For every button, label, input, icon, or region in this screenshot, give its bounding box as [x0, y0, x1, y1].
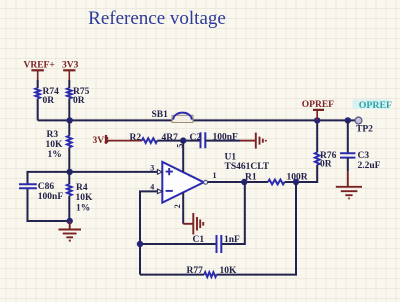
resistor R2 — [142, 138, 157, 143]
wire C86 left branch — [28, 172, 70, 221]
svg-text:0R: 0R — [320, 160, 332, 170]
svg-text:U1: U1 — [225, 153, 237, 163]
wire R3 column — [68, 120, 70, 171]
resistor R77 — [204, 272, 216, 277]
svg-text:1nF: 1nF — [224, 235, 240, 245]
capacitor C2 — [201, 132, 206, 148]
svg-text:TP2: TP2 — [356, 125, 373, 135]
wire main bus — [38, 119, 356, 121]
svg-text:Reference voltage: Reference voltage — [88, 8, 226, 29]
wire VREF+ column — [37, 80, 39, 88]
wire C2 to ground — [205, 140, 240, 142]
wire R4 column — [68, 172, 70, 221]
svg-text:C86: C86 — [38, 182, 55, 192]
svg-text:OPREF: OPREF — [302, 100, 334, 110]
svg-text:C3: C3 — [358, 151, 370, 161]
svg-text:2.2uF: 2.2uF — [358, 161, 381, 171]
wire R2 to C2 — [157, 140, 200, 142]
svg-text:5: 5 — [176, 144, 185, 148]
power port 3V3 top — [62, 61, 79, 80]
resistor R4 — [67, 184, 72, 195]
wire R76 column — [316, 120, 318, 152]
svg-text:10K: 10K — [220, 266, 238, 276]
node junction R4/ground — [67, 218, 73, 224]
wire R77 row — [140, 182, 296, 275]
ground right of C2 — [240, 133, 266, 149]
wire output row — [208, 165, 318, 182]
svg-text:R77: R77 — [187, 266, 204, 276]
pin 1 output bubble — [204, 180, 208, 184]
resistor R74 — [35, 88, 40, 99]
node junction bus/C3 — [345, 117, 351, 123]
node junction bus/R3 — [67, 117, 73, 123]
wire 3V3 column — [68, 80, 70, 88]
svg-text:OPREF: OPREF — [359, 100, 392, 111]
svg-text:10K: 10K — [76, 193, 94, 203]
node junction bus/R76 — [314, 117, 320, 123]
svg-text:TS461CLT: TS461CLT — [225, 162, 270, 172]
resistor R75 — [67, 88, 72, 99]
svg-text:4: 4 — [150, 182, 154, 191]
svg-text:2: 2 — [173, 204, 182, 208]
node junction C1 left — [137, 241, 143, 247]
svg-text:100nF: 100nF — [38, 192, 64, 202]
capacitor C1 — [217, 235, 222, 253]
svg-text:4R7: 4R7 — [162, 133, 179, 143]
svg-text:3V3: 3V3 — [62, 61, 79, 71]
node junction pin3 row — [67, 169, 73, 175]
power port OPREF — [302, 100, 334, 120]
svg-text:R1: R1 — [245, 173, 257, 183]
pin 3 arrow — [157, 170, 162, 175]
svg-text:R2: R2 — [130, 133, 142, 143]
wire pin4 row — [140, 191, 158, 274]
resistor R1 — [268, 180, 285, 185]
solder bridge SB1 — [152, 110, 194, 122]
svg-text:C1: C1 — [193, 235, 205, 245]
resistor R76 — [315, 152, 320, 164]
test point TP2 — [355, 117, 362, 124]
wire C1 row — [140, 182, 245, 244]
op-amp U1 — [162, 153, 269, 203]
node junction output/C1 — [241, 179, 247, 185]
capacitor C3 — [340, 153, 355, 157]
power port VREF+ — [24, 61, 55, 80]
net label OPREF (cyan) — [353, 99, 390, 109]
svg-text:3: 3 — [150, 164, 154, 173]
svg-text:C2: C2 — [190, 133, 202, 143]
wire C3 column — [347, 120, 349, 153]
capacitor C86 — [19, 184, 37, 188]
svg-text:SB1: SB1 — [152, 110, 169, 120]
ground under C3 — [336, 171, 362, 198]
svg-text:1%: 1% — [76, 204, 90, 214]
svg-text:1%: 1% — [48, 150, 62, 160]
svg-text:R3: R3 — [47, 130, 59, 140]
node junction pin5 — [180, 137, 186, 143]
svg-text:1: 1 — [213, 171, 217, 180]
svg-text:0R: 0R — [73, 96, 85, 106]
node junction R1/R77 — [293, 179, 299, 185]
power port 3V3 mid — [93, 135, 142, 146]
pin 2 wire — [182, 192, 184, 223]
pin 5 wire — [182, 141, 184, 173]
wire pin3 row — [70, 171, 158, 173]
ground at pin 2 — [183, 213, 203, 235]
pin 4 arrow — [157, 189, 162, 194]
resistor R3 — [67, 136, 72, 148]
svg-text:VREF+: VREF+ — [24, 61, 55, 71]
svg-text:10K: 10K — [46, 140, 64, 150]
ground under R4 — [59, 221, 82, 241]
svg-text:R4: R4 — [76, 183, 88, 193]
svg-text:0R: 0R — [43, 96, 55, 106]
